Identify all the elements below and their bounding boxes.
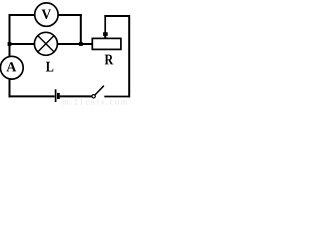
wire: left vertical (node between battery negative and meters)	[9, 14, 11, 97]
ammeter A: body circle	[0, 56, 23, 79]
lamp L: body circle	[34, 32, 57, 55]
node: junction dot left (lamp row / left wire)	[8, 42, 12, 46]
lamp L: cross diagonal 2	[38, 36, 54, 52]
battery B1: short thick plate (negative)	[57, 93, 60, 99]
wire: voltmeter branch right vertical drop	[80, 14, 82, 45]
voltmeter V: letter V	[42, 10, 51, 20]
wire: right vertical edge	[128, 15, 130, 97]
voltmeter V: body circle	[35, 3, 58, 26]
wire: top-right horizontal to right edge	[104, 15, 130, 17]
lamp L: cross diagonal 1	[38, 36, 54, 52]
wire: slider vertical from top-right branch	[104, 15, 106, 33]
wire: bottom horizontal left (battery to left corner)	[9, 95, 55, 97]
switch S1: open blade	[95, 86, 104, 95]
label L (lamp)	[46, 62, 53, 72]
svg-text:m.21cnjy.com: m.21cnjy.com	[62, 97, 129, 105]
switch S1: pivot circle	[92, 95, 95, 98]
rheostat R: slider arrow head	[103, 32, 108, 39]
wire: bottom horizontal right (switch to right corner)	[104, 96, 130, 98]
ammeter A: letter A	[6, 62, 16, 71]
battery B1: long plate (positive)	[55, 89, 57, 102]
wire: bottom horizontal middle (battery to switch)	[60, 95, 92, 97]
node: junction dot right (lamp row / voltmeter branch)	[79, 42, 83, 46]
wire: top horizontal voltmeter branch	[9, 14, 82, 16]
rheostat R: resistance track rectangle	[92, 38, 121, 49]
wire: lamp row horizontal	[9, 43, 93, 45]
label R (rheostat value label)	[105, 55, 114, 65]
